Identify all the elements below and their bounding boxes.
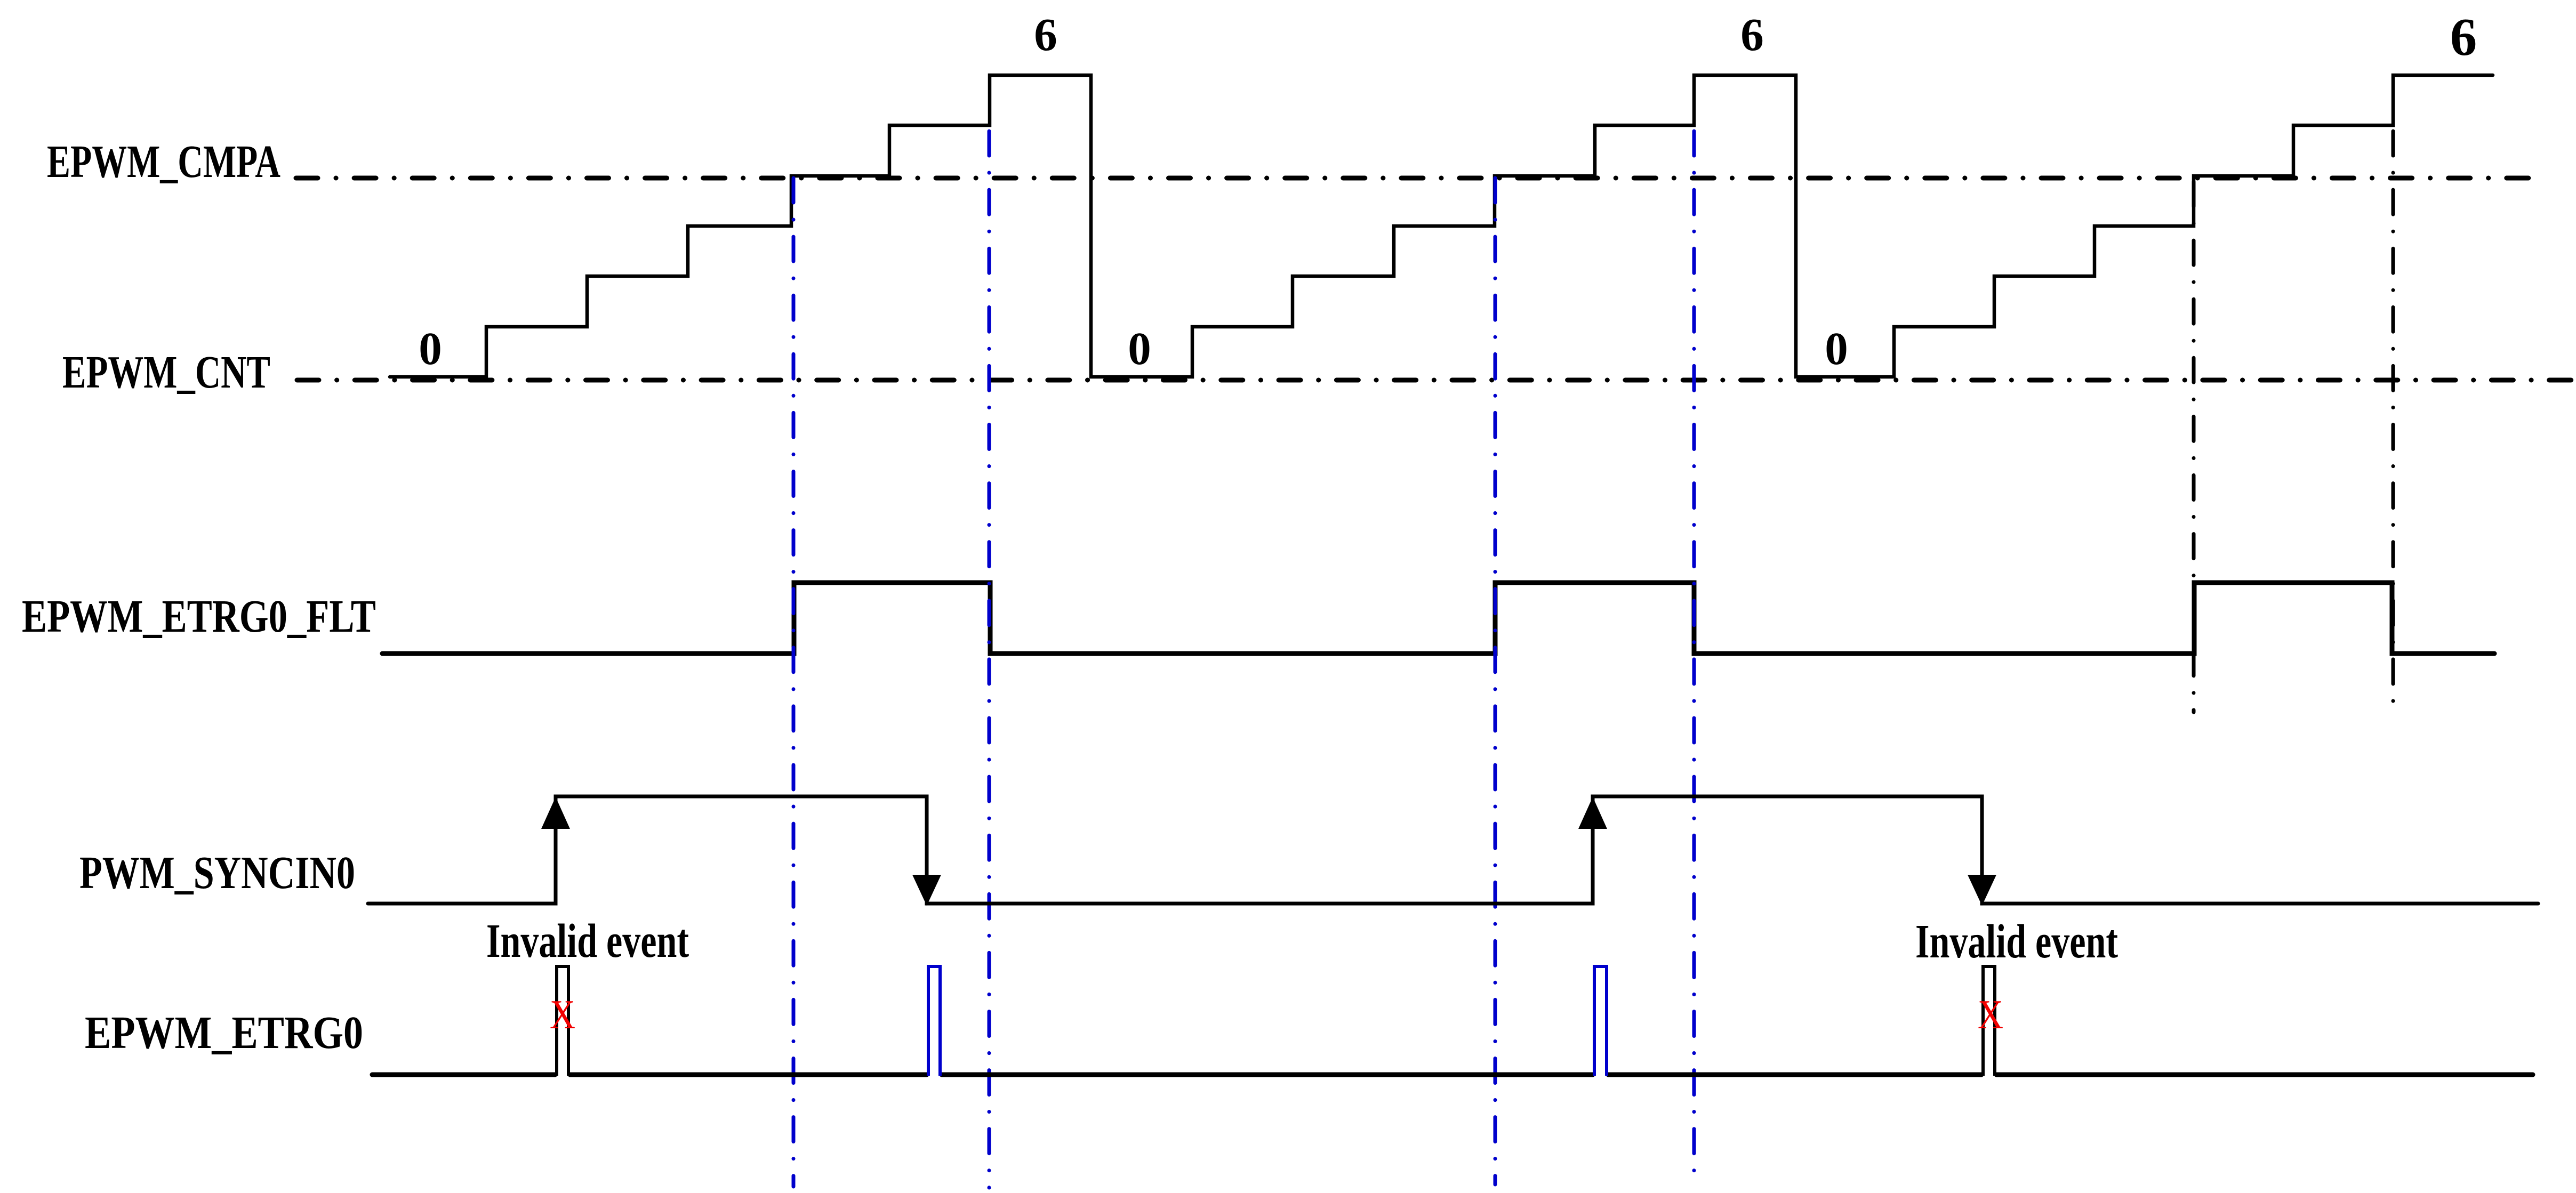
svg-text:X: X	[1978, 992, 2003, 1037]
svg-text:6: 6	[1740, 9, 1764, 60]
svg-text:6: 6	[1034, 9, 1057, 60]
svg-text:PWM_SYNCIN0: PWM_SYNCIN0	[79, 847, 355, 898]
svg-text:Invalid event: Invalid event	[486, 915, 689, 968]
svg-text:EPWM_ETRG0: EPWM_ETRG0	[85, 1006, 363, 1058]
svg-text:EPWM_ETRG0_FLT: EPWM_ETRG0_FLT	[22, 590, 376, 642]
svg-text:0: 0	[419, 323, 442, 374]
svg-text:6: 6	[2450, 7, 2477, 67]
svg-text:X: X	[550, 992, 575, 1037]
svg-text:0: 0	[1825, 323, 1848, 374]
svg-text:0: 0	[1128, 323, 1151, 374]
svg-text:EPWM_CNT: EPWM_CNT	[62, 346, 270, 398]
svg-text:EPWM_CMPA: EPWM_CMPA	[47, 135, 280, 187]
svg-text:Invalid event: Invalid event	[1915, 915, 2118, 968]
